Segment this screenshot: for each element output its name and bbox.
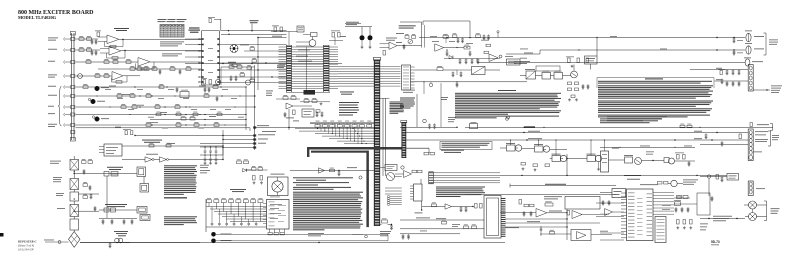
- junction dots right rows: [446, 49, 447, 50]
- resistor R64: [203, 80, 206, 85]
- u15 extra pins: [263, 203, 267, 205]
- wire U2 top riser: [220, 19, 222, 31]
- right row A wire: [690, 69, 749, 71]
- wire alc out: [547, 212, 567, 214]
- cap C23 txdata: [338, 171, 340, 172]
- connector P2 ladder: [402, 122, 407, 158]
- wire op-amp U1B output: [121, 50, 202, 52]
- vertical x441: [440, 83, 442, 127]
- wire q10 bias: [598, 162, 600, 168]
- wire op-amp U1A output: [119, 39, 202, 41]
- regulator box D: [587, 156, 596, 162]
- regulator box A: [507, 145, 516, 151]
- resistor R46: [452, 35, 457, 37]
- transistor Q4 can: [95, 117, 100, 122]
- diamond choke X: [69, 232, 81, 248]
- note central paragraph 2: [455, 110, 561, 111]
- IC U15 inner labels: [270, 203, 282, 206]
- IC U15 box: [267, 200, 290, 230]
- label lpf: [436, 217, 446, 220]
- wire mid row 5: [76, 124, 247, 126]
- wire gates: [122, 159, 145, 161]
- vertical x223 reset: [222, 130, 224, 160]
- IC U3 left stubs: [279, 46, 287, 48]
- input cap stack row1: [97, 32, 100, 37]
- choke L1: [104, 172, 109, 177]
- latch stub wires: [385, 187, 402, 189]
- tp box right: [472, 67, 486, 75]
- label reset logic: [146, 153, 158, 156]
- rf detector box: [565, 197, 600, 210]
- rail R2: [540, 49, 745, 51]
- resistor R38: [214, 124, 219, 127]
- resistor R24: [130, 95, 135, 98]
- wire sh out: [444, 47, 464, 49]
- reg box F: [664, 158, 669, 163]
- cap C4: [179, 69, 181, 70]
- wire reset row d: [223, 147, 255, 149]
- shield box T4: [140, 215, 150, 221]
- resistor R63: [237, 66, 242, 69]
- label RESET: [167, 142, 175, 145]
- wire op-amp U1D output: [123, 75, 140, 77]
- power control paragraph 4: [598, 108, 712, 109]
- wire tp2: [216, 240, 388, 242]
- junction bus bottom: [391, 224, 392, 225]
- junction row119: [204, 119, 205, 120]
- caps C14 C15: [457, 38, 459, 39]
- mod circle: [272, 181, 283, 192]
- resistor R40: [291, 97, 296, 100]
- resistor R11: [130, 68, 135, 71]
- wire tp1: [216, 233, 388, 235]
- grounds u20: [677, 226, 679, 227]
- junction dots rails: [523, 132, 524, 133]
- wire caps row: [99, 218, 137, 220]
- caps row A: [726, 70, 728, 71]
- wire pc right: [609, 159, 625, 161]
- regulator box C: [552, 156, 561, 162]
- cap C5 top: [209, 19, 211, 23]
- cap C16 right of note: [720, 71, 722, 75]
- side text block B: [164, 216, 197, 217]
- wire mid row 2: [76, 95, 257, 97]
- alc feedback resistor: [545, 203, 553, 206]
- transistor Q14: [115, 238, 120, 243]
- notes block mid2: [436, 187, 485, 188]
- latch wires: [380, 167, 386, 169]
- op-amp U8 small: [489, 54, 498, 62]
- IC U19 right inner labels: [637, 197, 643, 200]
- resistor R52: [432, 204, 437, 207]
- extra caps J2 row1: [91, 39, 93, 40]
- resistor R61: [383, 51, 386, 56]
- labels chain left: [50, 160, 61, 163]
- wire adapt: [286, 91, 304, 93]
- wire U13 riser: [604, 140, 606, 151]
- bracket to control unit: [765, 33, 767, 55]
- black feedthrough cap FB1: [360, 35, 365, 40]
- bracket power set: [509, 184, 511, 188]
- op-amp U1A feedback: [104, 42, 106, 47]
- capacitor C1: [95, 39, 97, 40]
- cap C6 above synth: [274, 27, 277, 32]
- bundle junction dots: [352, 128, 353, 129]
- resistor R22: [213, 86, 218, 89]
- wire fb top rail: [345, 26, 372, 28]
- vertical meter: [708, 178, 710, 196]
- vertical fl3 fl4: [752, 209, 754, 213]
- IC U20 inner stripes: [657, 218, 665, 221]
- power set control line: [510, 185, 616, 187]
- resistor R29: [155, 106, 160, 109]
- wires u19 left: [596, 202, 624, 204]
- bracket reg rail: [772, 124, 774, 131]
- resistor R12: [137, 68, 142, 71]
- resistor R72: [247, 67, 252, 69]
- resistor R6: [104, 61, 109, 64]
- filter grid verticals: [208, 203, 210, 207]
- label +5V REG: [250, 19, 259, 22]
- vertical conv: [288, 109, 290, 130]
- TCXO box: [507, 59, 521, 65]
- caps u4: [452, 72, 454, 73]
- connector J2 pin boxes: [71, 38, 75, 41]
- wire alc2 out: [591, 234, 612, 236]
- wire rail drop to helical: [596, 38, 598, 57]
- xtal Y2 box: [675, 202, 681, 206]
- crystal Y1 circle: [309, 40, 316, 47]
- resistor R47: [476, 35, 481, 37]
- connector J2 vertical bus: [71, 33, 73, 140]
- wire row2 from J2: [76, 49, 101, 51]
- junction dots rail R2: [716, 49, 717, 50]
- vertical down x424: [423, 82, 425, 94]
- ALC amp box: [612, 189, 626, 198]
- resistor R65: [209, 80, 212, 85]
- note text bottom b: [352, 233, 363, 236]
- extra labels mid rows: [109, 85, 116, 88]
- mod circle X: [274, 183, 282, 191]
- resistor ladder connect top: [310, 121, 375, 123]
- op-amp U1C mic amp: [138, 58, 150, 67]
- resistor R31: [156, 113, 161, 115]
- bias resistors pc: [521, 162, 526, 165]
- caps mid right: [705, 134, 707, 135]
- wire bottom long: [80, 242, 505, 244]
- label data latch: [441, 149, 464, 152]
- wire u12 down: [421, 201, 423, 210]
- filter box FL1: [542, 73, 551, 80]
- wire row3 from J2: [76, 61, 139, 63]
- cap C2: [95, 50, 97, 51]
- wire conv1: [276, 98, 300, 100]
- label alc out: [549, 210, 562, 213]
- resistors u9: [412, 170, 417, 173]
- labels J1 mid right: [755, 130, 768, 133]
- connector J1-7 oval: [746, 46, 751, 54]
- label POWER CONTROL: [624, 174, 641, 177]
- label AUDIO INPUT NETWORK: [114, 27, 129, 30]
- wire fb risers: [361, 27, 363, 35]
- label POWER SET CONTROL LINE: [545, 183, 566, 186]
- vertical 223 ext: [222, 147, 224, 155]
- J2 input pigtail labels: [48, 37, 58, 40]
- vertical q15: [220, 67, 222, 85]
- det out wire: [582, 214, 600, 216]
- resistor R67: [424, 152, 429, 155]
- notes small block: [339, 102, 359, 103]
- caps q15: [230, 76, 232, 77]
- wire q6 collector: [573, 65, 575, 72]
- wire sync det out: [397, 45, 422, 47]
- rf choke stack box 1: [70, 160, 79, 171]
- vco misc parts: [403, 44, 405, 45]
- right row B wire: [715, 80, 749, 82]
- label tx data from control: [262, 130, 276, 133]
- chain right parts: [82, 161, 87, 164]
- vertical wire x246: [245, 87, 247, 130]
- enclosure right: [697, 193, 710, 215]
- IC U12 box: [414, 184, 423, 201]
- label VCO latch: [399, 24, 416, 27]
- label alc out: [640, 183, 658, 186]
- cap C22: [109, 243, 111, 244]
- connector J1 bar top: [748, 65, 753, 92]
- op-amp U1D: [112, 72, 123, 81]
- reg box E: [625, 157, 633, 163]
- label +9.6v alc: [527, 220, 540, 223]
- resistors q13: [658, 181, 663, 184]
- upper audio rail: [98, 68, 202, 70]
- bus bottom resistor R19: [382, 220, 388, 223]
- filter grid caps: [211, 207, 213, 224]
- resistor R48: [464, 46, 470, 49]
- label aux keyed: [380, 230, 391, 233]
- cap C36 feedback: [443, 36, 449, 39]
- caps gate out: [460, 207, 462, 208]
- vertical x417: [416, 94, 418, 127]
- label POWER-UP LOW BAT RESET: [142, 139, 162, 142]
- label sync det: [386, 37, 397, 40]
- reset pins left: [99, 146, 104, 148]
- filter box FL2: [554, 73, 563, 80]
- wire fb grounds: [361, 40, 363, 46]
- label 4.5v: [415, 212, 423, 215]
- bundle extra droppers: [320, 124, 322, 132]
- wire u3 right top: [334, 37, 336, 45]
- resistor R34: [217, 113, 222, 115]
- wire mid row 1: [76, 86, 247, 88]
- op-amp U21: [605, 209, 613, 216]
- wire row 147 right: [600, 146, 695, 148]
- rf choke FL3: [749, 201, 757, 209]
- resistor R8: [126, 61, 131, 64]
- resistor R62: [229, 66, 234, 69]
- caps cluster under U6: [316, 112, 318, 113]
- bias vr pc right: [677, 155, 680, 160]
- operating note box: [440, 142, 492, 150]
- resistor R41: [293, 110, 296, 115]
- wire b+ row: [99, 173, 137, 175]
- junction dots u2 wires: [257, 56, 258, 57]
- gate G1: [145, 157, 152, 162]
- wire b+ down: [106, 176, 108, 218]
- alc2 op-amp U18: [577, 232, 587, 240]
- q6 bias stack: [568, 82, 572, 85]
- ladder labels row: [316, 120, 320, 123]
- resistor R1: [79, 38, 84, 41]
- caps u4 bottom: [429, 124, 431, 125]
- bracket antenna: [766, 201, 768, 221]
- wire row 155 left: [200, 154, 223, 156]
- labels p1 j1 bottom: [700, 223, 708, 226]
- rf choke stack box 4: [70, 205, 79, 217]
- op-amp U1B feedback: [106, 53, 108, 58]
- wire U2 to synth row a: [221, 30, 287, 32]
- svg-text:MODEL TLF4020G: MODEL TLF4020G: [18, 15, 57, 20]
- cap comb row147: [204, 146, 205, 147]
- power control note title: [645, 78, 663, 79]
- gate G3: [319, 168, 325, 173]
- resistor R59: [550, 231, 555, 234]
- IC U2 pins left: [199, 38, 202, 40]
- power control paragraph 5: [598, 115, 710, 116]
- model chart header text: [158, 18, 167, 21]
- resistor R21: [159, 86, 164, 89]
- bundle crossing bus to U4: [380, 66, 401, 68]
- resistor R17: [232, 64, 237, 66]
- label tx data: [347, 166, 357, 169]
- label antenna sw: [771, 85, 782, 88]
- wire q15 row: [221, 66, 255, 68]
- wire top rows right of audio: [185, 38, 202, 40]
- latch circle: [387, 173, 395, 181]
- mod input parts: [252, 168, 257, 171]
- IC U3 center line: [306, 47, 308, 90]
- tp circle mid: [507, 116, 510, 119]
- chain bottom wire: [45, 241, 69, 243]
- tx data wire: [290, 170, 375, 172]
- resistor R9: [95, 75, 100, 78]
- transistor Q13: [671, 180, 677, 186]
- transistor Q1 row4: [78, 74, 83, 79]
- shield box T3: [137, 207, 147, 214]
- IC U15 bottom pins: [269, 229, 271, 233]
- osc section stub wires: [296, 41, 310, 43]
- caps u20 right: [675, 207, 677, 208]
- wire u4a: [300, 101, 330, 103]
- IC U12 pins: [410, 185, 414, 187]
- resistor R70: [250, 48, 255, 50]
- IC U3 synthesizer left pin column: [286, 45, 288, 92]
- transistor Q9: [560, 155, 566, 161]
- label remote mic: [277, 64, 285, 67]
- resistor R54: [464, 226, 469, 229]
- caps row B: [726, 81, 728, 82]
- filter grid left vertical: [205, 199, 207, 232]
- IC U4 bar: [402, 65, 411, 90]
- alc input parts: [519, 200, 522, 205]
- wire row 220: [400, 219, 484, 221]
- label +5v rowA: [716, 67, 722, 70]
- resistor R44: [405, 36, 409, 39]
- labels right of connector x254: [258, 133, 275, 136]
- vertical alc2: [540, 226, 542, 236]
- resistor R77: [237, 161, 242, 164]
- trimmer R88: [230, 45, 238, 53]
- label rx audio: [754, 35, 764, 38]
- +5vreg long rail: [465, 126, 773, 128]
- label +5V conv: [286, 117, 294, 120]
- label to antenna: [448, 116, 456, 119]
- rf choke stack box 3: [70, 192, 79, 201]
- long wire y175: [500, 174, 727, 176]
- connector stub pins lower: [390, 196, 402, 198]
- choke L2: [111, 172, 118, 177]
- label 4.5v reg: [683, 179, 698, 182]
- wire J1 out: [753, 89, 770, 91]
- wire u9: [395, 173, 404, 175]
- test point TP2 dot: [211, 239, 216, 244]
- wire row 234: [400, 233, 460, 235]
- programming resistor ladder: [310, 123, 375, 125]
- chain output stub 1: [74, 173, 99, 175]
- notes numbered block dense: [293, 192, 363, 193]
- black feedthrough cap FB2: [368, 35, 373, 40]
- resistor R33: [193, 113, 198, 115]
- wire from diamond: [80, 241, 130, 243]
- wire conv2: [293, 105, 312, 107]
- labels antenna row: [713, 215, 732, 218]
- label to ant switch: [771, 207, 780, 210]
- vco loop wire top: [423, 20, 470, 22]
- label +5V right: [340, 35, 346, 38]
- resistor R73: [240, 74, 245, 76]
- diode CR1: [449, 56, 453, 60]
- alc line lower: [465, 194, 616, 196]
- filter grid top resistor row: [207, 200, 212, 203]
- wire row 147 left: [200, 146, 223, 148]
- caps left cluster: [483, 35, 485, 36]
- wire row 229: [400, 228, 484, 230]
- transistor Q12: [669, 158, 675, 164]
- IC U3 internal rungs: [292, 46, 324, 48]
- bus bundle synth to main bus: [338, 66, 375, 68]
- cap C26 chain: [90, 194, 92, 195]
- label mic hi: [754, 48, 764, 51]
- vco loop drop right: [469, 21, 471, 36]
- transistor Q8: [543, 146, 549, 152]
- label trimmer: [240, 44, 249, 47]
- resistor R30: [175, 106, 180, 109]
- transistor Q2 can: [95, 86, 100, 91]
- +5v stub: [497, 33, 499, 38]
- transistor Q10: [595, 155, 601, 161]
- note central paragraph 3: [455, 116, 559, 117]
- thick coax vertical drop B: [366, 151, 369, 228]
- label +9.6v: [528, 130, 540, 133]
- op-amp U1A: [107, 35, 119, 44]
- bundle mid connector: [429, 172, 434, 184]
- label B+ INPUT POWER FILTERING: [107, 166, 123, 169]
- wire q8 to vertical: [550, 149, 567, 151]
- label sp-5v: [753, 151, 762, 154]
- wire misc row: [99, 209, 137, 211]
- resistor stack u20: [677, 220, 680, 225]
- resistor R15: [170, 68, 175, 71]
- label +5V REG bottom: [228, 61, 236, 64]
